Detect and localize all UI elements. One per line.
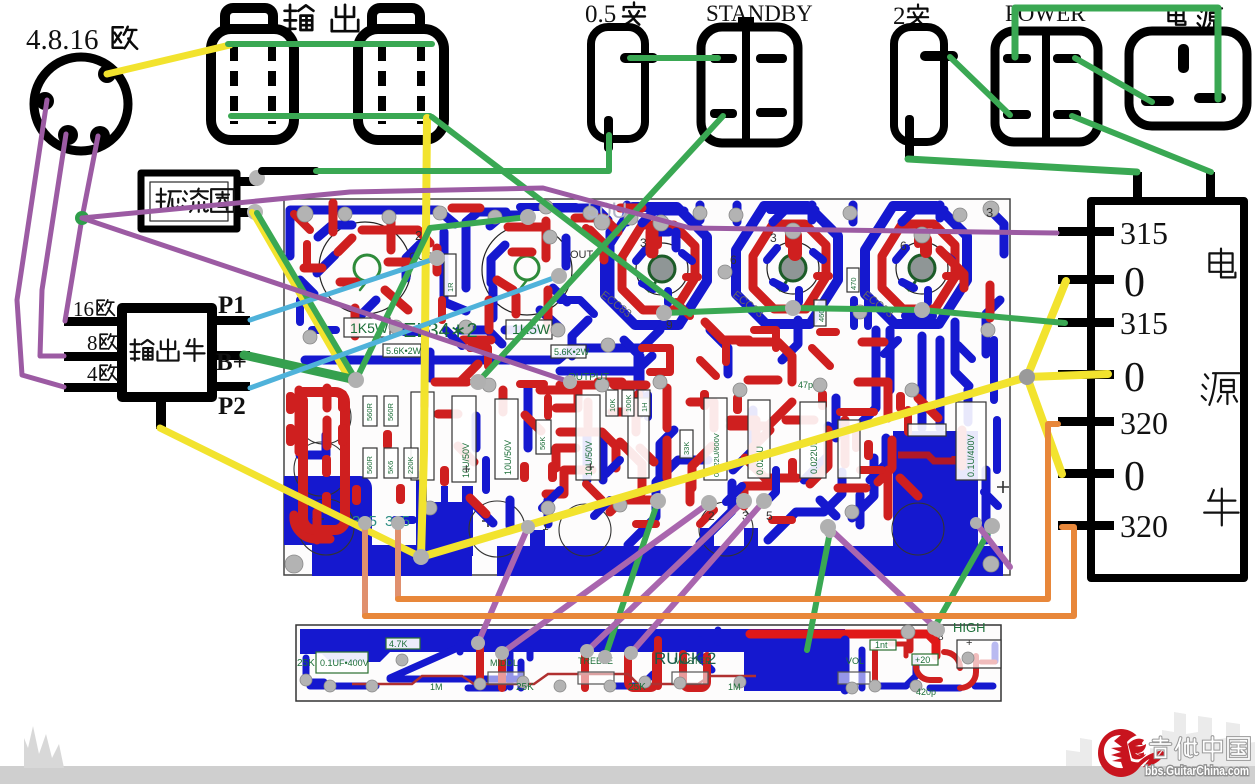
- svg-text:5.6K•2W: 5.6K•2W: [386, 346, 422, 356]
- svg-text:320: 320: [1120, 405, 1168, 441]
- wire yellow DIN to jack1: [107, 45, 230, 74]
- blue tab above band: [530, 528, 758, 546]
- svg-text:315: 315: [1120, 215, 1168, 251]
- wire green jacks top: [228, 41, 432, 47]
- wire purple din pin1 to 4ohm: [17, 100, 64, 387]
- strip red top trace: [750, 634, 936, 656]
- wire yellow vertex to fan pad: [421, 377, 1027, 557]
- svg-text:3: 3: [986, 205, 993, 220]
- blue traces: [290, 205, 1004, 545]
- svg-text:+20: +20: [915, 655, 930, 665]
- svg-text:6: 6: [900, 239, 907, 253]
- wire cyan P2 to pcb: [250, 276, 559, 388]
- blue bottom band: [312, 545, 472, 576]
- svg-text:3: 3: [640, 236, 647, 250]
- logo text 吉他中国: [1151, 737, 1250, 760]
- svg-text:420p: 420p: [916, 687, 936, 697]
- svg-text:220K: 220K: [406, 456, 415, 474]
- logo dragon G: [1098, 729, 1164, 777]
- svg-text:RUCK 2: RUCK 2: [654, 649, 716, 668]
- svg-text:1M: 1M: [430, 682, 443, 692]
- switch S1 STANDBY: [701, 17, 798, 143]
- wire yellow fan to 0 terminal 6: [1027, 377, 1062, 474]
- blue big rect right: [893, 431, 978, 546]
- svg-text:2: 2: [708, 509, 715, 523]
- svg-text:+: +: [462, 461, 471, 478]
- extra red density: [294, 214, 908, 524]
- svg-text:+: +: [586, 459, 595, 476]
- faint electrolytic circles: [294, 390, 1009, 557]
- switch S2 POWER: [995, 31, 1098, 142]
- svg-text:+: +: [966, 637, 972, 649]
- component outline boxes: [344, 254, 986, 482]
- BOXES: [64, 170, 1244, 578]
- terminal P2: [210, 382, 250, 391]
- svg-text:STANDBY: STANDBY: [706, 1, 813, 26]
- svg-text:5K6: 5K6: [386, 461, 395, 474]
- svg-text:25K: 25K: [628, 682, 646, 693]
- svg-text:P1: P1: [218, 292, 246, 319]
- terminal 315: [1058, 318, 1114, 327]
- pads main pcb: [285, 200, 999, 573]
- wire purple long to 315: [82, 188, 1057, 233]
- wire purple strip3: [587, 501, 744, 651]
- wire green power to transformer stub: [1072, 116, 1211, 172]
- wire green standby down to pad: [478, 116, 723, 382]
- output jack J2: [211, 8, 294, 140]
- strip blue band: [300, 629, 845, 691]
- strip blue traces: [306, 630, 995, 690]
- wire green power to inlet pin: [1075, 58, 1152, 102]
- svg-text:bbs.GuitarChina.com: bbs.GuitarChina.com: [1145, 763, 1249, 778]
- fuse holder F1 0.5A: [591, 27, 658, 152]
- wire purple strip right: [828, 527, 938, 630]
- blue left staircase: [284, 476, 372, 545]
- tube V4 footprint: [736, 206, 838, 324]
- svg-text:5.6K•2W: 5.6K•2W: [554, 347, 590, 357]
- svg-text:4: 4: [87, 362, 98, 386]
- wire green jack2 to pcb: [432, 117, 690, 314]
- wire yellow choke pair: [252, 212, 350, 381]
- wire orange path B: [365, 527, 1074, 616]
- PCB MAIN: [284, 198, 1010, 576]
- svg-text:8: 8: [87, 331, 98, 355]
- terminal 320: [1058, 417, 1114, 426]
- strip thin red meander: [352, 674, 756, 684]
- top stub left: [1133, 172, 1142, 203]
- svg-text:47p: 47p: [798, 380, 813, 390]
- tube V5 footprint: [865, 206, 967, 324]
- FOOTER: [0, 712, 1255, 784]
- terminal 16欧: [64, 317, 124, 326]
- svg-text:560R: 560R: [386, 402, 395, 421]
- svg-text:1H: 1H: [640, 402, 649, 412]
- svg-text:5: 5: [766, 509, 773, 523]
- svg-text:320: 320: [1120, 508, 1168, 544]
- svg-text:P2: P2: [218, 393, 246, 420]
- wire green pcb to strip pin8: [934, 526, 992, 628]
- svg-text:33K: 33K: [682, 442, 691, 455]
- wire cyan P1 to pcb: [250, 258, 437, 320]
- terminal P1: [210, 316, 250, 325]
- output jack J3: [358, 8, 444, 140]
- svg-text:315: 315: [1120, 305, 1168, 341]
- svg-text:10U/50V: 10U/50V: [503, 440, 513, 475]
- node pads group: [348, 372, 364, 388]
- svg-text:470: 470: [849, 277, 858, 290]
- wire green fuse to standby: [630, 55, 718, 61]
- choke 扼流圈 L1: [141, 170, 265, 229]
- terminal 8欧: [64, 352, 124, 361]
- small red dumbbells: [286, 390, 905, 514]
- svg-text:25K: 25K: [516, 682, 534, 693]
- wire purple diag across left pcb: [82, 218, 570, 382]
- red traces: [294, 203, 990, 540]
- terminal 315: [1058, 227, 1114, 236]
- bottom stub: [156, 395, 166, 429]
- terminal B+: [210, 351, 250, 360]
- svg-text:4.8.16: 4.8.16: [26, 24, 99, 56]
- wire salmon 325 right: [395, 523, 401, 599]
- wire green pcb to strip left: [605, 501, 658, 657]
- svg-text:0.1UF•400V: 0.1UF•400V: [320, 658, 369, 668]
- label 4.8.16欧: [26, 24, 137, 56]
- svg-text:1M: 1M: [728, 682, 741, 692]
- svg-text:4.7K: 4.7K: [389, 639, 408, 649]
- wire green B+ thick: [244, 355, 356, 380]
- svg-text:0: 0: [1124, 260, 1145, 306]
- wire green power switch loop to inlet: [1015, 8, 1218, 99]
- wire salmon 325 left: [362, 523, 368, 616]
- svg-text:HIGH: HIGH: [953, 620, 986, 635]
- terminal 320: [1058, 521, 1114, 530]
- extra blue density: [300, 207, 998, 520]
- blue castle block: [416, 486, 473, 556]
- wire purple strip2: [502, 503, 709, 653]
- node fan pad: [1019, 369, 1035, 385]
- svg-text:10K: 10K: [608, 399, 617, 412]
- svg-text:56K: 56K: [538, 437, 547, 450]
- svg-text:6: 6: [730, 253, 737, 267]
- terminal 0: [1058, 275, 1114, 284]
- tube V3 footprint: [605, 207, 707, 325]
- wire yellow jack2 down to vertex: [421, 118, 427, 557]
- wire green choke stub black: [262, 167, 316, 175]
- wire purple strip1: [478, 527, 528, 643]
- strip texts: [297, 620, 986, 697]
- strip pads: [300, 625, 974, 694]
- label 2安: [893, 3, 928, 30]
- pcb texts: [350, 198, 993, 533]
- strip blue block: [744, 629, 845, 691]
- wire green choke to pcb pad: [257, 213, 356, 380]
- wire purple corner short: [976, 523, 1010, 567]
- wire green across right pcb to 315: [664, 308, 1065, 323]
- pads at wire ends: [348, 209, 1000, 664]
- terminal 4欧: [64, 383, 124, 392]
- wire purple strip4: [631, 501, 764, 653]
- terminal 0: [1058, 370, 1114, 379]
- big blue fills: [284, 431, 1003, 576]
- output transformer 输出牛 T1: [64, 292, 250, 429]
- wire purple din pin2 to 8ohm: [40, 134, 66, 356]
- tube V2 footprint: [482, 225, 572, 315]
- svg-text:0.1U/400V: 0.1U/400V: [966, 434, 976, 477]
- svg-text:100K: 100K: [624, 394, 633, 412]
- TOPROW: [26, 1, 1247, 161]
- red squiggle on blue block: [898, 455, 960, 461]
- svg-text:0: 0: [1124, 454, 1145, 500]
- strip red traces: [480, 634, 995, 688]
- wire green 2A fuse to transformer stub: [908, 159, 1137, 172]
- svg-text:25K: 25K: [297, 658, 315, 669]
- strip component boxes: [316, 638, 1001, 684]
- svg-text:VOL: VOL: [846, 656, 864, 666]
- svg-text:560R: 560R: [365, 455, 374, 474]
- terminal 0: [1058, 469, 1114, 478]
- svg-text:560R: 560R: [365, 402, 374, 421]
- PCB STRIP: [296, 620, 1001, 701]
- label 输出: [285, 5, 359, 31]
- power transformer 电源牛 T2: [1058, 172, 1244, 578]
- tube V1 footprint: [319, 222, 411, 314]
- wire green 2A fuse to power switch: [950, 57, 1010, 115]
- svg-text:0: 0: [1124, 355, 1145, 401]
- node green junction: [75, 211, 89, 225]
- top stub right: [1206, 172, 1215, 203]
- wire yellow transformer stub to vertex: [160, 428, 421, 557]
- svg-text:16: 16: [73, 297, 94, 321]
- wire yellow fan to 0 terminal 4: [1027, 374, 1108, 377]
- wire green pcb to strip mid: [807, 532, 830, 650]
- node vertex pad: [413, 549, 429, 565]
- svg-text:1R: 1R: [446, 282, 455, 292]
- IEC power inlet J4: [1129, 31, 1247, 126]
- fuse holder F2 2A: [894, 27, 958, 161]
- svg-text:1nt: 1nt: [875, 640, 888, 650]
- label 0.5安: [585, 1, 645, 28]
- speaker DIN connector J1: [34, 57, 128, 151]
- svg-text:3: 3: [770, 231, 777, 245]
- wire green jacks bottom: [231, 113, 430, 119]
- wire yellow fan to 0 terminal 2: [1027, 281, 1066, 377]
- wire orange path A: [398, 424, 1058, 599]
- wire purple din pin3 to 16ohm: [65, 136, 98, 321]
- wire green choke to fuse: [316, 135, 609, 171]
- wire green pad up to tube2: [356, 217, 528, 380]
- label 电源: [1168, 6, 1222, 29]
